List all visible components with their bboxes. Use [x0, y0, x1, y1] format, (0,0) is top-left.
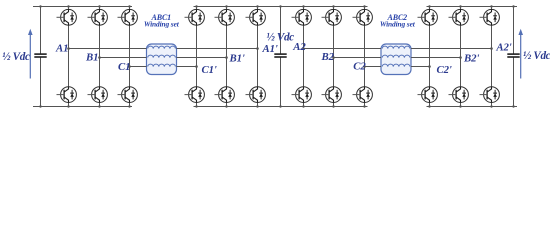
svg-text:Winding set: Winding set: [144, 20, 180, 29]
svg-text:B1: B1: [85, 51, 98, 63]
svg-text:C2: C2: [353, 60, 366, 72]
svg-text:C1': C1': [202, 64, 217, 76]
svg-text:A2': A2': [495, 42, 511, 54]
svg-text:A1: A1: [55, 43, 68, 55]
svg-text:C2': C2': [437, 64, 452, 76]
svg-text:Winding set: Winding set: [380, 20, 416, 29]
svg-text:A1': A1': [262, 43, 278, 55]
svg-text:B1': B1': [229, 53, 245, 65]
svg-text:½ Vdc: ½ Vdc: [2, 51, 30, 63]
svg-text:B2': B2': [463, 53, 479, 65]
svg-text:½ Vdc: ½ Vdc: [267, 32, 295, 44]
svg-text:½ Vdc: ½ Vdc: [523, 50, 550, 62]
svg-text:A2: A2: [292, 41, 306, 53]
svg-text:B2: B2: [321, 51, 335, 63]
svg-text:C1: C1: [118, 61, 130, 73]
